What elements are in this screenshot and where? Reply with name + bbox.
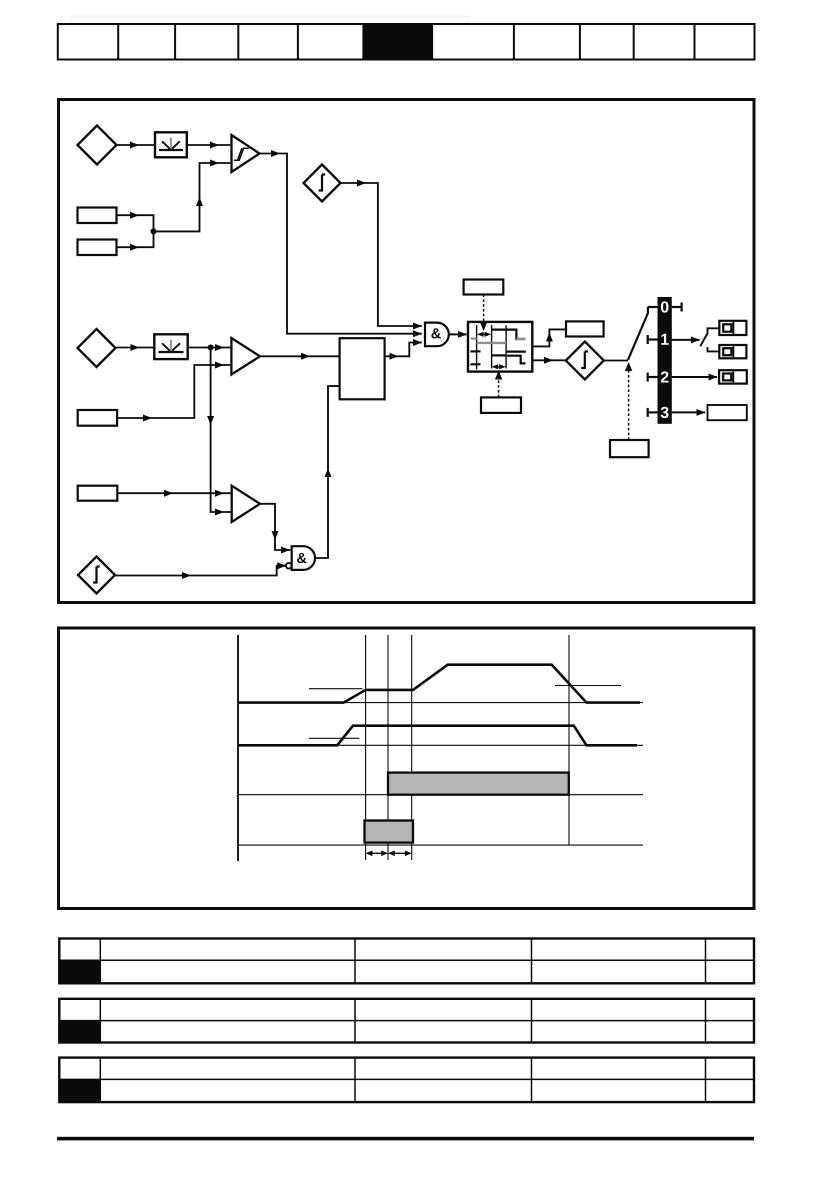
- wire D2 to B2: [116, 347, 155, 349]
- delay pulse bar: [365, 821, 414, 843]
- parameter box P4: [78, 486, 118, 501]
- wire PB lower output to S3: [532, 359, 566, 361]
- junction node J2: [208, 345, 214, 351]
- threshold marker right: [555, 685, 621, 687]
- selector digit 2: [661, 371, 669, 382]
- junction node J1: [151, 228, 157, 234]
- wire B1 to comparator A1 input 1: [187, 144, 231, 146]
- min-select block B1: [155, 132, 187, 157]
- delay block PB: [468, 322, 532, 372]
- wire B2 to junction J2: [188, 347, 211, 349]
- wire junction to comparator A1 input 2: [154, 163, 231, 231]
- delay measure arrow 2: [388, 851, 412, 857]
- reference waveform trace: [238, 726, 637, 746]
- comparator with hysteresis A1: [232, 135, 260, 172]
- parameter box P6 (off-delay): [481, 397, 521, 413]
- ramp source diamond S2: [78, 557, 115, 594]
- NAND gate G2: [286, 546, 315, 570]
- parameter box P8 (destination select): [610, 440, 649, 457]
- comparator A3: [232, 486, 260, 522]
- parameter table 3: [59, 1058, 754, 1103]
- selector bar: [658, 297, 672, 424]
- header tab bar: [58, 24, 755, 60]
- wire J2 down to comparator A3 input 2: [211, 348, 231, 513]
- wire PB upper output to P7: [532, 329, 566, 346]
- ramp source diamond S3: [566, 342, 604, 380]
- selector contact 0: [648, 303, 682, 314]
- dashed parameter wire P6 to PB: [495, 371, 502, 398]
- wire selector 3 to box P9: [672, 411, 705, 413]
- source diamond D1 (speed reference): [78, 126, 117, 165]
- dashed parameter wire P5 to PB: [480, 295, 487, 332]
- threshold marker left: [309, 688, 363, 690]
- timing diagram frame: [59, 628, 755, 909]
- threshold marker 2: [309, 737, 359, 739]
- wire A1 output to AND G1 input 2: [260, 154, 422, 334]
- selector wiper arm: [628, 313, 648, 360]
- parameter box P5 (on-delay): [464, 280, 504, 295]
- speed waveform trace: [238, 665, 640, 703]
- row baseline 4: [238, 844, 643, 846]
- time gridline t1: [365, 635, 367, 860]
- footer rule: [57, 1137, 754, 1141]
- relay terminal T1a: [719, 321, 746, 335]
- parameter table 2: [59, 999, 754, 1043]
- wire A3 output to NAND G2 input 1: [260, 504, 291, 550]
- timing axis: [237, 635, 239, 861]
- selector contact 1: [648, 335, 658, 344]
- row baseline 1: [238, 702, 643, 704]
- time gridline t3: [411, 635, 413, 860]
- min-select block B2: [154, 334, 187, 359]
- dashed parameter wire P8 to wiper: [625, 362, 632, 440]
- ramp source diamond S1: [304, 165, 341, 202]
- wire selector 2 to terminal T2: [672, 376, 717, 378]
- wire S3 to selector wiper: [604, 360, 628, 362]
- AND gate G1: [425, 323, 449, 347]
- wire S1 to AND G1 input 1: [341, 183, 422, 326]
- logic diagram frame: [59, 100, 755, 603]
- wire P3 to comparator A2 input 2: [117, 365, 230, 418]
- parameter box P2: [78, 240, 117, 256]
- logic block BB: [340, 338, 385, 399]
- wire selector 1 to relay contact: [672, 339, 700, 341]
- parameter table 1: [59, 939, 754, 984]
- selector contact 3: [648, 408, 658, 417]
- at-speed active bar: [388, 773, 569, 795]
- row baseline 3: [238, 794, 643, 796]
- wire P4 to comparator A3 input 1: [117, 492, 230, 494]
- parameter box P1: [78, 208, 117, 224]
- wire J2 to comparator A2 input 1: [211, 347, 231, 349]
- wire BB output to AND G1 input 3: [385, 343, 422, 357]
- wire S2 to NAND G2 inverted input 2: [115, 566, 286, 576]
- wire D1 to B1: [117, 144, 156, 146]
- source diamond D2: [78, 329, 116, 367]
- destination box P9: [708, 405, 747, 420]
- selector digit 1: [661, 334, 668, 345]
- relay terminal T1b: [719, 345, 746, 358]
- output terminal T2: [719, 370, 747, 383]
- selector contact 2: [648, 373, 658, 382]
- selector digit 3: [661, 407, 669, 418]
- status box P7: [566, 321, 604, 336]
- wire G2 output up to BB lower input: [315, 386, 339, 558]
- wire A2 output to big block BB: [260, 355, 340, 357]
- wire G1 output to delay block PB: [449, 333, 467, 335]
- comparator A2: [231, 338, 260, 375]
- relay changeover contact K1: [700, 328, 719, 351]
- selector digit 0: [661, 301, 669, 312]
- delay measure arrow 1: [366, 851, 388, 857]
- parameter box P3: [78, 410, 117, 426]
- active black tab cell: [363, 24, 432, 60]
- row baseline 2: [238, 744, 643, 746]
- faint washed-out header text strip: [70, 16, 470, 19]
- time gridline t4: [568, 635, 570, 845]
- wire P1 to junction: [117, 215, 154, 231]
- wire P2 to junction: [117, 231, 154, 247]
- time gridline t2: [387, 635, 389, 860]
